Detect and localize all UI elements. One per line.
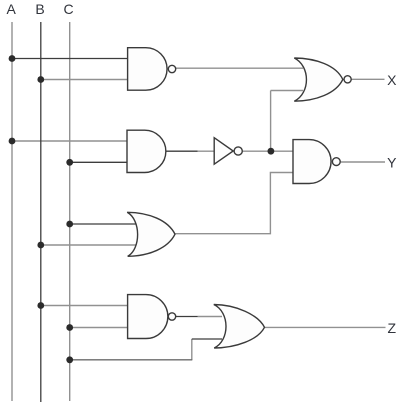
svg-text:Y: Y xyxy=(387,155,397,171)
svg-text:Z: Z xyxy=(388,320,397,336)
svg-text:A: A xyxy=(7,1,17,17)
svg-text:C: C xyxy=(63,1,73,17)
svg-text:B: B xyxy=(35,1,44,17)
svg-text:X: X xyxy=(387,72,397,88)
